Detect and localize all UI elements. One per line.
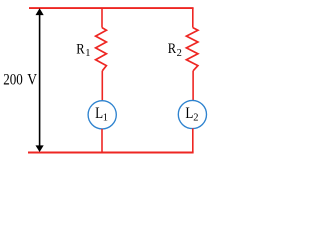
wire bottom horizontal — [28, 152, 194, 154]
svg-text:200: 200 — [3, 71, 23, 89]
svg-text:R: R — [168, 41, 176, 57]
wire branch2 bottom segment — [192, 128, 194, 152]
lamp L2 — [178, 100, 206, 128]
svg-text:L: L — [185, 104, 193, 122]
wire branch1 top segment — [101, 8, 103, 28]
wire branch1 bottom segment — [101, 129, 103, 153]
lamp L1 — [88, 101, 116, 129]
svg-text:2: 2 — [177, 48, 182, 59]
wire branch1 middle segment — [101, 71, 103, 101]
voltage arrow head bottom — [36, 145, 44, 152]
voltage arrow head top — [36, 8, 44, 15]
svg-text:1: 1 — [85, 48, 90, 59]
svg-text:R: R — [76, 41, 84, 57]
resistor R1 — [96, 28, 107, 71]
wire branch2 top segment — [192, 8, 194, 28]
svg-text:1: 1 — [103, 113, 108, 124]
wire branch2 middle segment — [192, 71, 194, 101]
svg-text:2: 2 — [193, 113, 198, 124]
wire top horizontal — [29, 7, 194, 9]
svg-text:V: V — [27, 71, 37, 89]
voltage arrow shaft — [39, 13, 41, 147]
resistor R2 — [186, 28, 198, 71]
